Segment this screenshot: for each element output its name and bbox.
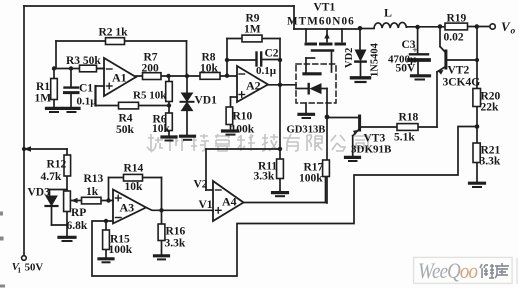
svg-text:3.3k: 3.3k [254, 171, 275, 183]
svg-text:C2: C2 [265, 48, 279, 60]
svg-text:5.1k: 5.1k [394, 132, 415, 144]
svg-text:3.3k: 3.3k [165, 238, 186, 250]
svg-text:R5 10k: R5 10k [133, 90, 167, 102]
svg-text:A4: A4 [222, 195, 237, 209]
svg-text:10k: 10k [152, 123, 171, 135]
svg-text:VT2: VT2 [448, 65, 470, 77]
svg-text:50k: 50k [116, 124, 135, 136]
svg-text:GD313B: GD313B [287, 125, 326, 136]
svg-text:22k: 22k [481, 102, 500, 114]
svg-text:0.1µ: 0.1µ [256, 65, 277, 77]
svg-text:V2: V2 [194, 179, 208, 191]
svg-text:VT1: VT1 [314, 2, 336, 14]
svg-text:R10: R10 [233, 111, 253, 123]
svg-text:RP: RP [71, 207, 86, 219]
svg-text:R14: R14 [124, 163, 144, 175]
svg-text:VD3: VD3 [28, 187, 51, 199]
svg-text:0.1µ: 0.1µ [77, 96, 98, 108]
svg-text:R13: R13 [84, 173, 104, 185]
svg-text:100k: 100k [231, 124, 255, 136]
svg-text:L: L [384, 6, 392, 20]
svg-text:A1: A1 [112, 71, 127, 85]
svg-text:VD1: VD1 [195, 95, 218, 107]
svg-text:R12: R12 [47, 159, 67, 171]
svg-text:R1: R1 [36, 81, 50, 93]
svg-text:200: 200 [142, 63, 160, 75]
svg-text:100k: 100k [299, 173, 323, 185]
svg-text:1N5404: 1N5404 [370, 42, 381, 77]
svg-text:MTM60N06: MTM60N06 [287, 16, 355, 28]
svg-text:1M: 1M [35, 93, 52, 105]
svg-text:100k: 100k [109, 244, 133, 256]
svg-text:1: 1 [17, 265, 21, 274]
svg-text:R2 1k: R2 1k [99, 27, 129, 39]
svg-text:R19: R19 [447, 13, 467, 25]
svg-text:3.3k: 3.3k [480, 156, 501, 168]
svg-text:6.8k: 6.8k [67, 220, 88, 232]
svg-text:A2: A2 [246, 79, 261, 93]
svg-text:V: V [501, 19, 511, 34]
svg-text:0.02: 0.02 [444, 32, 464, 44]
svg-text:50V: 50V [25, 261, 44, 273]
svg-text:1k: 1k [86, 186, 99, 198]
svg-text:A3: A3 [120, 201, 135, 215]
svg-text:3CK4G: 3CK4G [443, 77, 481, 89]
svg-text:o: o [511, 27, 516, 37]
svg-text:V1: V1 [199, 199, 213, 211]
svg-text:R18: R18 [399, 112, 419, 124]
svg-text:R16: R16 [166, 226, 186, 238]
svg-text:3DK91B: 3DK91B [351, 144, 392, 156]
svg-text:1M: 1M [244, 24, 261, 36]
svg-text:4.7k: 4.7k [41, 171, 62, 183]
svg-text:C1: C1 [79, 83, 93, 95]
svg-text:R3 50k: R3 50k [66, 55, 101, 67]
svg-text:R4: R4 [119, 113, 133, 125]
svg-text:VD2: VD2 [344, 48, 355, 68]
svg-text:10k: 10k [125, 181, 144, 193]
svg-text:10k: 10k [200, 63, 219, 75]
svg-text:WeeQoo: WeeQoo [418, 258, 478, 283]
svg-text:50V: 50V [396, 63, 417, 75]
